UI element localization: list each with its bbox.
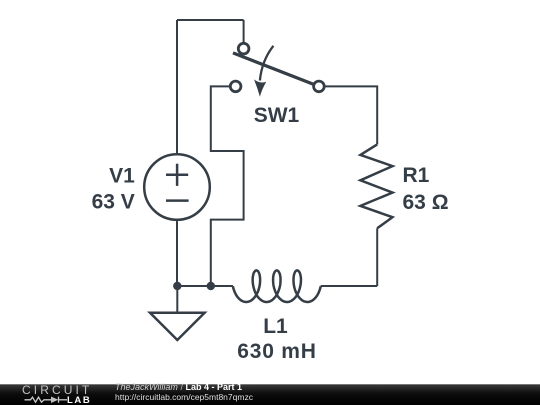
junction node right (207, 282, 215, 290)
wire bottom left horizontal (177, 285, 233, 287)
svg-text:TheJackWilliam / Lab 4 - Part: TheJackWilliam / Lab 4 - Part 1 (115, 382, 242, 392)
svg-text:SW1: SW1 (254, 104, 300, 127)
junction node left (173, 282, 181, 290)
svg-text:63 Ω: 63 Ω (403, 191, 449, 214)
svg-text:63 V: 63 V (92, 191, 135, 214)
switch blade (233, 53, 313, 84)
footer bar (0, 384, 540, 405)
switch left throw node (230, 81, 241, 92)
wire top-left vertical (176, 20, 178, 154)
svg-text:L1: L1 (263, 315, 288, 338)
logo diode triangle (51, 397, 58, 404)
wire bottom right horizontal (321, 285, 378, 287)
ground (150, 313, 205, 340)
switch SW1 (230, 43, 324, 91)
wire switch throw-right to resistor (325, 86, 377, 144)
wire ground lead (176, 286, 178, 313)
voltage source V1 (144, 154, 210, 220)
wire top horizontal (177, 19, 244, 21)
footer top border (0, 384, 540, 386)
wire switch throw-left jog around V1 (211, 86, 244, 286)
switch arrowhead (254, 79, 266, 97)
svg-text:630 mH: 630 mH (237, 340, 317, 363)
inductor L1 (233, 270, 321, 302)
wire resistor bottom lead (376, 228, 378, 286)
svg-text:R1: R1 (403, 164, 430, 187)
svg-text:V1: V1 (109, 164, 135, 187)
logo wire-resistor-diode (25, 397, 68, 403)
switch actuation arrow (260, 46, 274, 81)
wire V1 bottom lead (176, 221, 178, 287)
switch right throw node (314, 81, 325, 92)
switch common node (238, 43, 249, 54)
svg-text:LAB: LAB (67, 395, 91, 405)
wire switch common lead (243, 20, 245, 42)
svg-text:http://circuitlab.com/cep5mt8n: http://circuitlab.com/cep5mt8n7qmzc (115, 392, 254, 402)
resistor R1 (360, 144, 392, 228)
